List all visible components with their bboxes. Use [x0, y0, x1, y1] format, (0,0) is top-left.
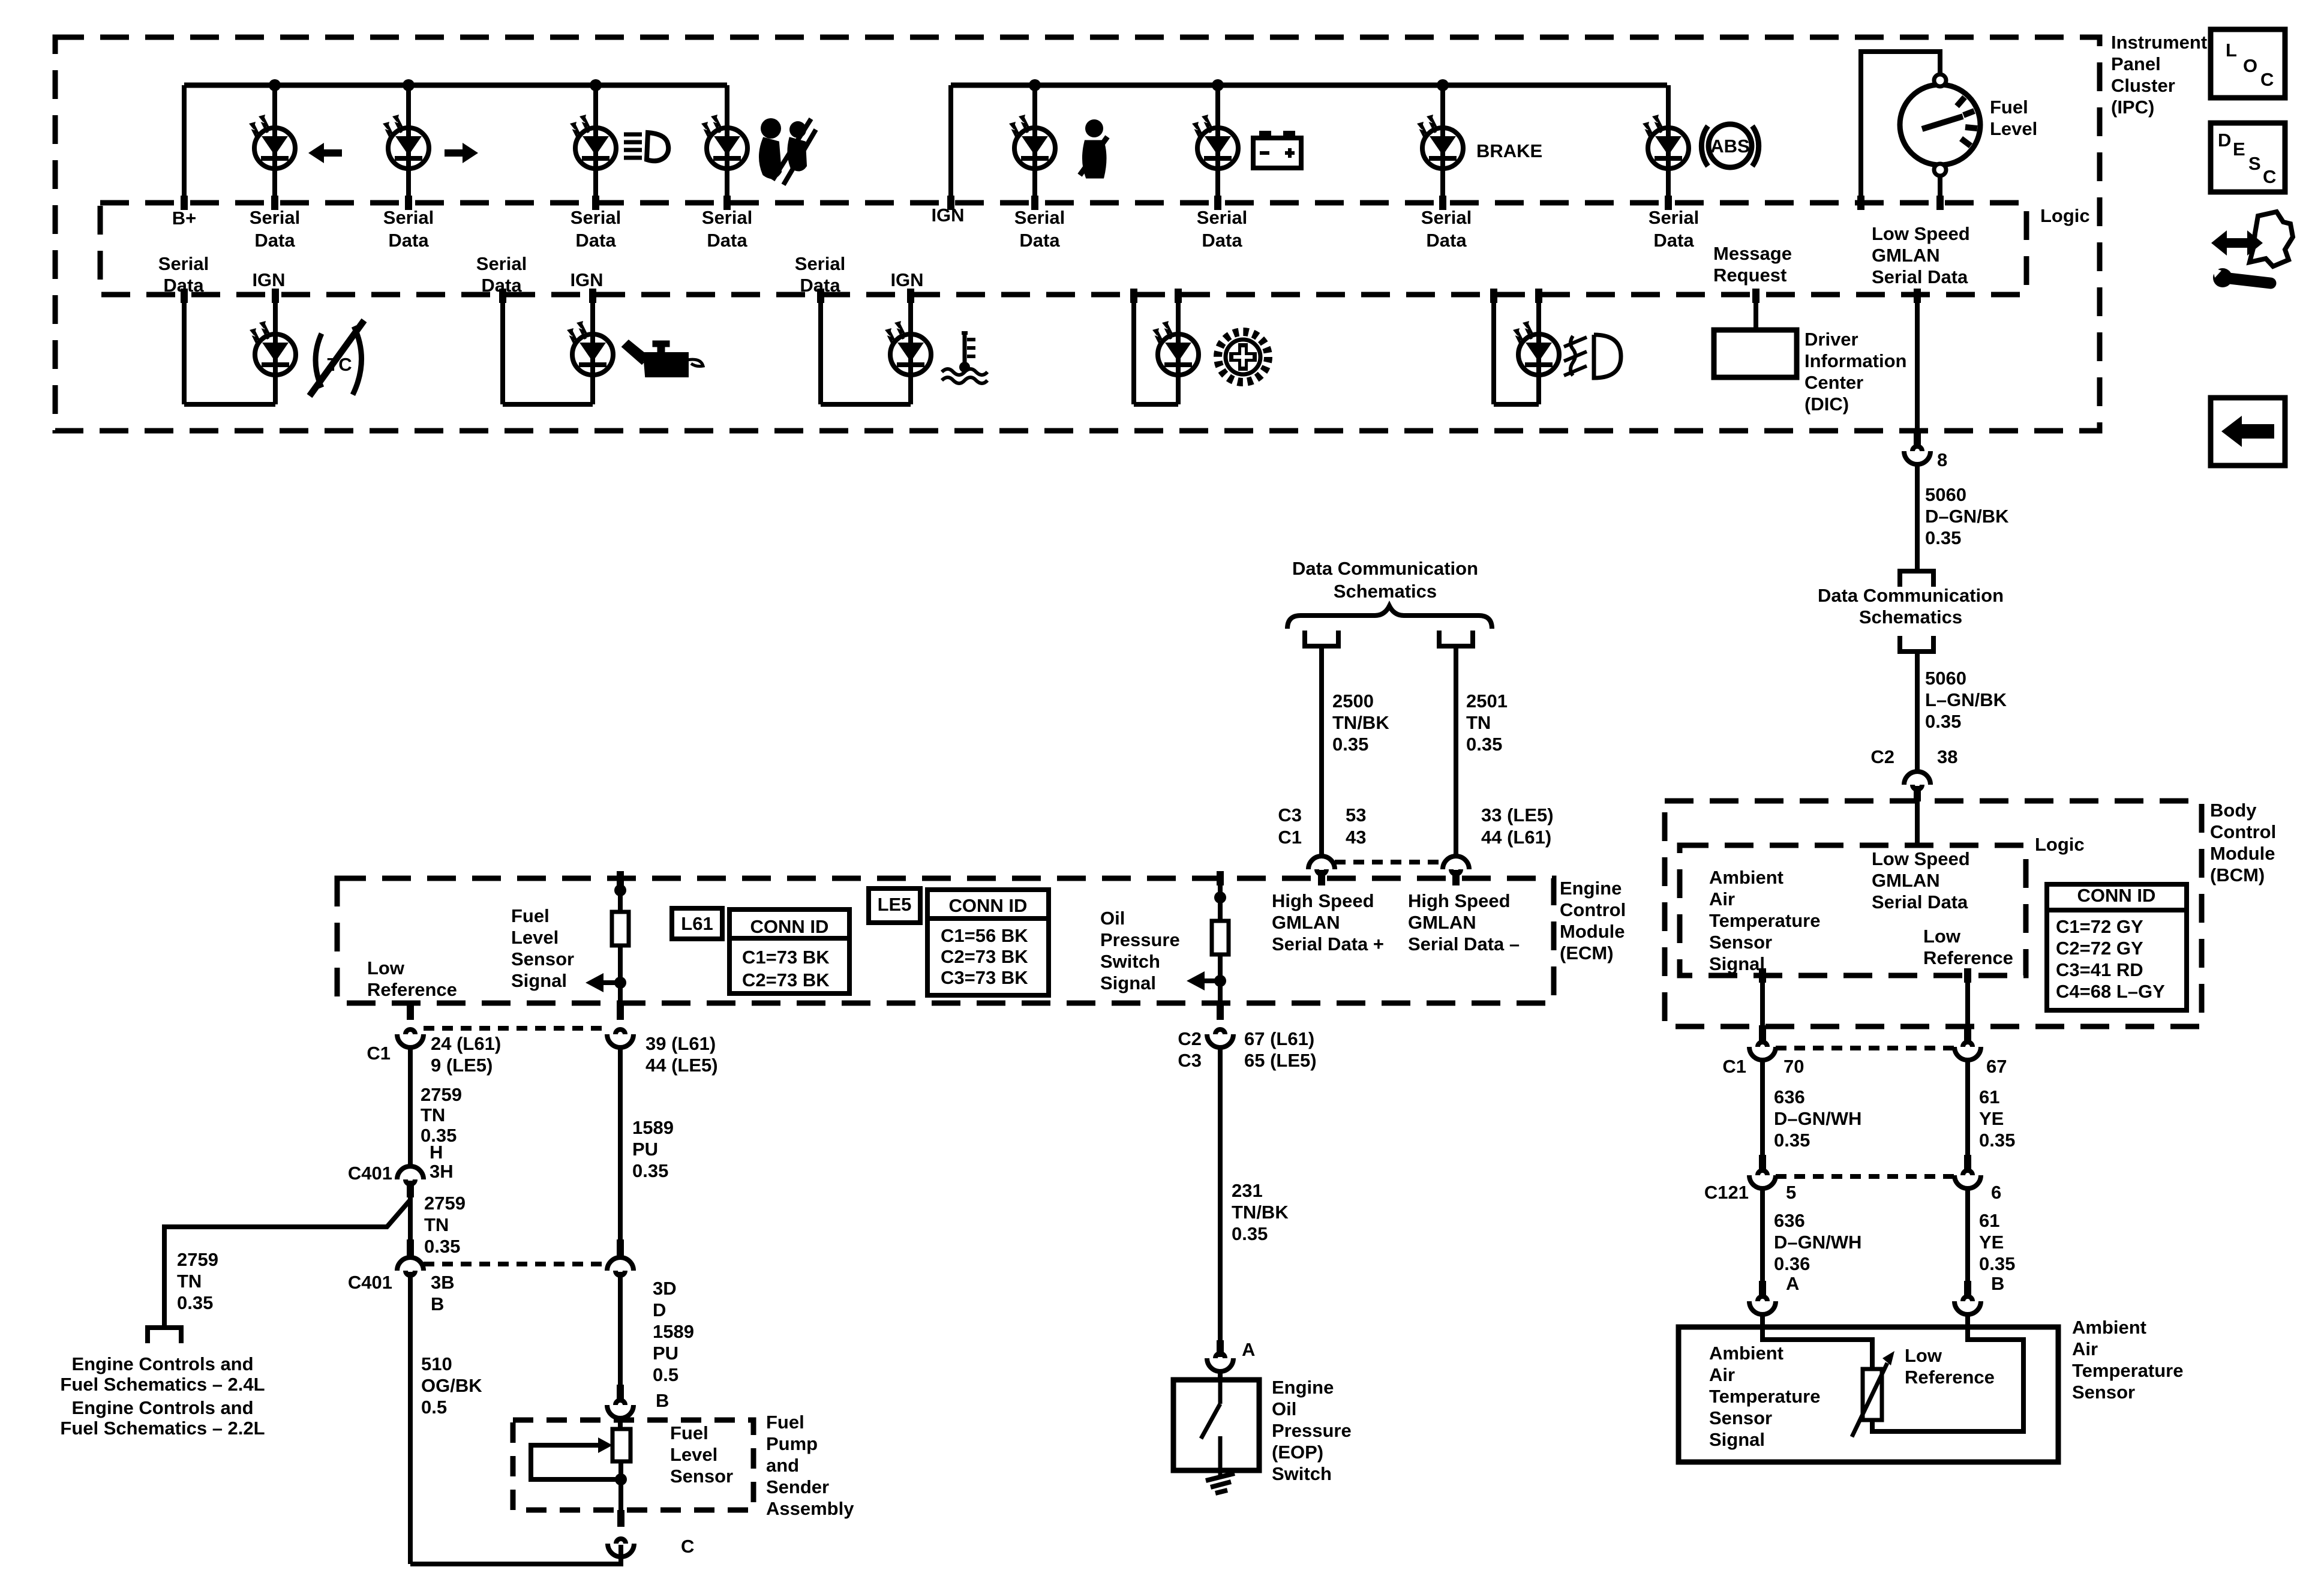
svg-text:Assembly: Assembly: [766, 1498, 854, 1519]
svg-text:Data: Data: [1202, 230, 1242, 251]
svg-text:Low: Low: [1905, 1345, 1942, 1366]
svg-text:IGN: IGN: [252, 269, 285, 290]
svg-text:C1=72 GY: C1=72 GY: [2056, 916, 2143, 937]
svg-text:2501: 2501: [1466, 691, 1508, 712]
svg-text:0.36: 0.36: [1774, 1253, 1810, 1274]
svg-text:Data: Data: [1019, 230, 1060, 251]
svg-text:Switch: Switch: [1100, 951, 1160, 972]
svg-text:C: C: [2263, 166, 2276, 187]
svg-text:1589: 1589: [632, 1117, 674, 1138]
svg-text:0.5: 0.5: [653, 1364, 678, 1385]
svg-text:Low: Low: [367, 957, 405, 978]
svg-text:YE: YE: [1979, 1232, 2004, 1253]
svg-text:Module: Module: [1560, 921, 1625, 942]
svg-text:Pressure: Pressure: [1272, 1420, 1352, 1441]
svg-text:Serial: Serial: [702, 207, 752, 228]
svg-text:39 (L61): 39 (L61): [645, 1033, 716, 1054]
svg-text:Data: Data: [707, 230, 747, 251]
svg-text:OG/BK: OG/BK: [421, 1375, 482, 1396]
svg-text:TN: TN: [424, 1214, 449, 1235]
svg-text:Serial: Serial: [383, 207, 434, 228]
svg-text:Sensor: Sensor: [511, 948, 574, 969]
svg-text:C4=68 L–GY: C4=68 L–GY: [2056, 981, 2165, 1002]
svg-text:GMLAN: GMLAN: [1872, 870, 1940, 891]
svg-text:0.35: 0.35: [632, 1160, 668, 1181]
svg-text:Sensor: Sensor: [2072, 1382, 2135, 1403]
svg-text:0.35: 0.35: [1925, 711, 1961, 732]
svg-text:Control: Control: [2210, 821, 2276, 842]
svg-text:Information: Information: [1804, 350, 1907, 371]
svg-text:Level: Level: [511, 927, 559, 948]
svg-text:Sender: Sender: [766, 1476, 829, 1497]
svg-text:Instrument: Instrument: [2111, 32, 2207, 53]
svg-text:Serial: Serial: [1421, 207, 1472, 228]
svg-text:Request: Request: [1713, 265, 1786, 286]
svg-text:8: 8: [1937, 449, 1947, 470]
svg-text:Ambient: Ambient: [1709, 1343, 1783, 1364]
svg-text:D–GN/BK: D–GN/BK: [1925, 506, 2009, 527]
svg-text:B: B: [431, 1293, 444, 1314]
svg-text:Module: Module: [2210, 843, 2275, 864]
svg-text:Air: Air: [2072, 1338, 2098, 1359]
svg-text:Pump: Pump: [766, 1433, 818, 1454]
svg-text:C401: C401: [348, 1163, 392, 1184]
svg-text:Fuel: Fuel: [1990, 97, 2028, 118]
svg-text:Fuel Schematics – 2.2L: Fuel Schematics – 2.2L: [60, 1418, 265, 1439]
svg-text:Pressure: Pressure: [1100, 929, 1180, 950]
svg-text:43: 43: [1346, 827, 1366, 848]
svg-text:Oil: Oil: [1272, 1398, 1296, 1419]
svg-text:0.35: 0.35: [424, 1236, 460, 1257]
svg-text:Level: Level: [670, 1444, 717, 1465]
svg-text:and: and: [766, 1455, 799, 1476]
svg-text:Engine: Engine: [1272, 1377, 1334, 1398]
svg-text:C2=72 GY: C2=72 GY: [2056, 938, 2143, 959]
svg-text:Fuel Schematics – 2.4L: Fuel Schematics – 2.4L: [60, 1374, 265, 1395]
svg-text:Data: Data: [163, 275, 204, 296]
svg-text:5060: 5060: [1925, 484, 1966, 505]
svg-text:High Speed: High Speed: [1272, 890, 1374, 911]
svg-text:BRAKE: BRAKE: [1476, 140, 1542, 161]
svg-text:Panel: Panel: [2111, 53, 2161, 74]
svg-text:(IPC): (IPC): [2111, 97, 2154, 118]
svg-text:CONN ID: CONN ID: [750, 916, 829, 937]
svg-text:PU: PU: [632, 1139, 658, 1160]
svg-text:Data: Data: [1653, 230, 1694, 251]
svg-text:33 (LE5): 33 (LE5): [1481, 804, 1554, 825]
svg-text:Ambient: Ambient: [1709, 867, 1783, 888]
svg-text:C2: C2: [1870, 746, 1894, 767]
svg-text:0.35: 0.35: [1232, 1223, 1268, 1244]
svg-text:TN: TN: [177, 1271, 202, 1292]
svg-text:GMLAN: GMLAN: [1408, 912, 1476, 933]
svg-text:Signal: Signal: [1709, 953, 1765, 974]
svg-text:TN/BK: TN/BK: [1332, 712, 1389, 733]
svg-text:Serial: Serial: [1649, 207, 1699, 228]
svg-text:510: 510: [421, 1353, 452, 1374]
svg-text:0.35: 0.35: [1925, 527, 1961, 548]
svg-text:(DIC): (DIC): [1804, 394, 1849, 415]
svg-text:Control: Control: [1560, 899, 1626, 920]
svg-text:9 (LE5): 9 (LE5): [431, 1055, 493, 1076]
svg-text:636: 636: [1774, 1210, 1805, 1231]
svg-text:1589: 1589: [653, 1321, 694, 1342]
svg-text:Sensor: Sensor: [1709, 932, 1772, 953]
svg-text:Air: Air: [1709, 888, 1735, 909]
svg-text:IGN: IGN: [890, 269, 923, 290]
svg-text:IGN: IGN: [570, 269, 603, 290]
svg-text:Serial: Serial: [795, 253, 845, 274]
svg-text:2759: 2759: [177, 1249, 218, 1270]
svg-text:Reference: Reference: [1905, 1367, 1995, 1388]
svg-text:TN: TN: [421, 1104, 445, 1125]
svg-text:Sensor: Sensor: [1709, 1407, 1772, 1428]
svg-text:Schematics: Schematics: [1334, 581, 1437, 602]
svg-text:2500: 2500: [1332, 691, 1374, 712]
svg-text:44 (L61): 44 (L61): [1481, 827, 1551, 848]
svg-text:S: S: [2248, 153, 2261, 174]
svg-text:70: 70: [1783, 1056, 1804, 1077]
svg-text:C2: C2: [1178, 1028, 1202, 1049]
svg-text:(BCM): (BCM): [2210, 864, 2265, 885]
svg-text:C3=73 BK: C3=73 BK: [941, 967, 1028, 988]
svg-text:Serial: Serial: [1014, 207, 1065, 228]
svg-text:B+: B+: [172, 208, 197, 229]
svg-text:CONN ID: CONN ID: [2077, 885, 2156, 906]
svg-text:Low: Low: [1923, 926, 1961, 947]
svg-text:GMLAN: GMLAN: [1872, 245, 1940, 266]
svg-text:Driver: Driver: [1804, 329, 1858, 350]
svg-text:C401: C401: [348, 1272, 392, 1293]
svg-text:0.35: 0.35: [1774, 1130, 1810, 1151]
svg-text:Logic: Logic: [2040, 205, 2090, 226]
svg-text:Serial: Serial: [571, 207, 621, 228]
svg-text:Oil: Oil: [1100, 908, 1125, 929]
svg-text:C1=56 BK: C1=56 BK: [941, 925, 1028, 946]
svg-text:Engine: Engine: [1560, 878, 1622, 899]
svg-text:Switch: Switch: [1272, 1463, 1332, 1484]
svg-text:61: 61: [1979, 1086, 1999, 1107]
svg-text:231: 231: [1232, 1180, 1263, 1201]
svg-text:C1: C1: [367, 1043, 391, 1064]
svg-text:Serial: Serial: [250, 207, 300, 228]
svg-text:GMLAN: GMLAN: [1272, 912, 1340, 933]
svg-text:Serial Data +: Serial Data +: [1272, 933, 1384, 954]
svg-text:65 (LE5): 65 (LE5): [1244, 1050, 1317, 1071]
svg-text:0.35: 0.35: [1332, 734, 1368, 755]
svg-text:636: 636: [1774, 1086, 1805, 1107]
svg-text:A: A: [1242, 1339, 1255, 1360]
svg-text:C3: C3: [1278, 804, 1302, 825]
svg-text:Temperature: Temperature: [1709, 1386, 1821, 1407]
svg-text:L61: L61: [681, 913, 713, 934]
svg-text:LE5: LE5: [878, 894, 912, 915]
svg-text:D: D: [2218, 130, 2231, 151]
svg-text:Data: Data: [575, 230, 616, 251]
svg-text:(ECM): (ECM): [1560, 942, 1614, 963]
svg-text:0.35: 0.35: [177, 1292, 213, 1313]
svg-text:B: B: [656, 1390, 669, 1411]
svg-text:Reference: Reference: [367, 979, 457, 1000]
svg-text:Low Speed: Low Speed: [1872, 223, 1970, 244]
svg-text:ABS: ABS: [1710, 136, 1749, 157]
svg-text:3B: 3B: [431, 1272, 455, 1293]
svg-text:Data: Data: [388, 230, 429, 251]
svg-text:38: 38: [1937, 746, 1957, 767]
svg-text:High Speed: High Speed: [1408, 890, 1511, 911]
svg-text:D–GN/WH: D–GN/WH: [1774, 1232, 1861, 1253]
svg-text:Schematics: Schematics: [1859, 607, 1962, 628]
svg-text:(EOP): (EOP): [1272, 1442, 1323, 1463]
svg-text:Reference: Reference: [1923, 947, 2013, 968]
svg-text:6: 6: [1991, 1182, 2001, 1203]
svg-text:Logic: Logic: [2035, 834, 2085, 855]
svg-text:Temperature: Temperature: [1709, 910, 1821, 931]
svg-text:Message: Message: [1713, 243, 1792, 264]
svg-text:Serial Data: Serial Data: [1872, 891, 1968, 912]
svg-text:D–GN/WH: D–GN/WH: [1774, 1108, 1861, 1129]
svg-text:Data: Data: [481, 275, 522, 296]
svg-text:Ambient: Ambient: [2072, 1317, 2146, 1338]
svg-text:L–GN/BK: L–GN/BK: [1925, 689, 2007, 710]
svg-text:0.35: 0.35: [1979, 1253, 2015, 1274]
svg-text:C1=73 BK: C1=73 BK: [742, 947, 830, 968]
svg-text:IGN: IGN: [931, 205, 964, 226]
svg-text:2759: 2759: [421, 1084, 462, 1105]
svg-text:Signal: Signal: [511, 970, 567, 991]
svg-text:B: B: [1991, 1273, 2004, 1294]
svg-text:C1: C1: [1278, 827, 1302, 848]
svg-text:CONN ID: CONN ID: [949, 895, 1028, 916]
svg-text:Signal: Signal: [1709, 1429, 1765, 1450]
svg-text:44 (LE5): 44 (LE5): [645, 1055, 718, 1076]
svg-text:O: O: [2243, 55, 2257, 76]
svg-text:0.5: 0.5: [421, 1397, 447, 1418]
svg-text:C2=73 BK: C2=73 BK: [742, 969, 830, 990]
svg-text:TN/BK: TN/BK: [1232, 1202, 1289, 1223]
svg-text:2759: 2759: [424, 1193, 466, 1214]
svg-text:PU: PU: [653, 1343, 678, 1364]
svg-text:Serial: Serial: [158, 253, 209, 274]
svg-text:0.35: 0.35: [1979, 1130, 2015, 1151]
svg-text:Fuel: Fuel: [511, 905, 550, 926]
svg-text:Temperature: Temperature: [2072, 1360, 2184, 1381]
svg-text:Data: Data: [1426, 230, 1467, 251]
svg-text:Body: Body: [2210, 800, 2257, 821]
svg-text:3D: 3D: [653, 1278, 677, 1299]
svg-text:Signal: Signal: [1100, 972, 1156, 993]
svg-text:Low Speed: Low Speed: [1872, 848, 1970, 869]
svg-text:Engine Controls and: Engine Controls and: [71, 1353, 253, 1374]
svg-text:Serial Data: Serial Data: [1872, 266, 1968, 287]
svg-text:TN: TN: [1466, 712, 1491, 733]
svg-text:C: C: [2260, 69, 2274, 90]
svg-text:Fuel: Fuel: [766, 1412, 804, 1433]
svg-text:67: 67: [1986, 1056, 2007, 1077]
svg-text:C1: C1: [1722, 1056, 1746, 1077]
svg-text:Sensor: Sensor: [670, 1466, 733, 1487]
svg-text:Data Communication: Data Communication: [1292, 558, 1478, 579]
svg-text:A: A: [1786, 1273, 1799, 1294]
svg-text:E: E: [2233, 139, 2245, 160]
svg-text:Data Communication: Data Communication: [1818, 585, 2004, 606]
svg-text:5060: 5060: [1925, 668, 1966, 689]
svg-text:C3: C3: [1178, 1050, 1202, 1071]
svg-text:Air: Air: [1709, 1364, 1735, 1385]
svg-text:Center: Center: [1804, 372, 1863, 393]
svg-text:3H: 3H: [430, 1161, 454, 1182]
svg-text:Fuel: Fuel: [670, 1422, 708, 1443]
svg-text:Serial Data –: Serial Data –: [1408, 933, 1520, 954]
svg-text:C2=73 BK: C2=73 BK: [941, 946, 1028, 967]
svg-text:Level: Level: [1990, 118, 2037, 139]
svg-text:C: C: [681, 1536, 694, 1557]
svg-text:Serial: Serial: [1197, 207, 1247, 228]
svg-text:C3=41 RD: C3=41 RD: [2056, 959, 2143, 980]
svg-text:53: 53: [1346, 804, 1366, 825]
svg-text:YE: YE: [1979, 1108, 2004, 1129]
svg-text:Engine Controls and: Engine Controls and: [71, 1397, 253, 1418]
svg-text:Data: Data: [254, 230, 295, 251]
svg-text:C121: C121: [1704, 1182, 1749, 1203]
svg-text:0.35: 0.35: [1466, 734, 1502, 755]
svg-text:24 (L61): 24 (L61): [431, 1033, 501, 1054]
svg-text:Data: Data: [800, 275, 840, 296]
svg-text:D: D: [653, 1299, 666, 1320]
svg-text:Serial: Serial: [476, 253, 527, 274]
svg-text:67 (L61): 67 (L61): [1244, 1028, 1314, 1049]
svg-text:L: L: [2226, 40, 2237, 61]
svg-text:Cluster: Cluster: [2111, 75, 2175, 96]
svg-text:61: 61: [1979, 1210, 1999, 1231]
svg-text:H: H: [430, 1142, 443, 1163]
svg-text:5: 5: [1786, 1182, 1796, 1203]
